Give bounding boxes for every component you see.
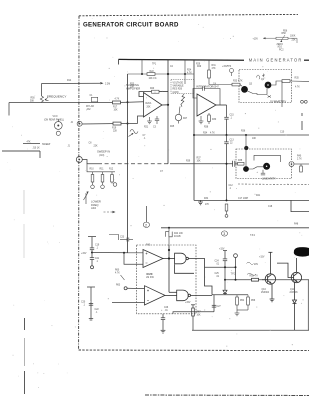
wire right edge bbox=[307, 280, 309, 331]
border bottom dashed bbox=[79, 349, 309, 352]
svg-text:C21: C21 bbox=[95, 258, 100, 260]
wire bbox=[193, 60, 195, 200]
svg-text:20K: 20K bbox=[147, 106, 152, 108]
svg-text:.0047: .0047 bbox=[213, 87, 219, 89]
svg-text:R10: R10 bbox=[90, 169, 95, 171]
svg-text:R36: R36 bbox=[241, 131, 246, 133]
svg-text:VOLTAGE: VOLTAGE bbox=[173, 81, 184, 84]
wire corner left bbox=[8, 103, 10, 116]
under summing amp: ground and cap bbox=[147, 116, 159, 124]
svg-text:C20: C20 bbox=[81, 302, 86, 304]
svg-text:C22: C22 bbox=[95, 309, 100, 311]
trimmer arrow bbox=[84, 193, 89, 201]
svg-text:22K: 22K bbox=[94, 146, 99, 148]
svg-text:+15V: +15V bbox=[81, 253, 87, 255]
input wire R19 from VCO connector bbox=[82, 116, 144, 125]
border top dashed bbox=[79, 14, 298, 15]
diode D4 bbox=[224, 280, 226, 291]
svg-text:(J10): (J10) bbox=[99, 155, 104, 157]
svg-text:C19: C19 bbox=[95, 245, 100, 247]
svg-text:2N3906: 2N3906 bbox=[290, 292, 299, 294]
wire to buffer box bbox=[209, 84, 232, 86]
summing output bus bbox=[167, 60, 169, 164]
svg-text:4.7K: 4.7K bbox=[115, 99, 120, 101]
svg-text:R54: R54 bbox=[240, 300, 245, 302]
svg-text:Q11: Q11 bbox=[290, 289, 295, 291]
ground bbox=[200, 200, 202, 202]
svg-text:(ON REAR PANEL): (ON REAR PANEL) bbox=[44, 119, 64, 122]
wire bbox=[87, 164, 115, 172]
svg-text:RES R26: RES R26 bbox=[173, 89, 183, 91]
svg-text:R34: R34 bbox=[203, 133, 208, 135]
square wave symbol bbox=[166, 228, 173, 245]
decoupling column C19/C21 bbox=[88, 237, 96, 269]
svg-text:R60: R60 bbox=[115, 270, 120, 272]
under integrator bbox=[199, 113, 211, 124]
svg-text:4.7K: 4.7K bbox=[187, 73, 192, 75]
svg-text:ADJ: ADJ bbox=[278, 46, 282, 49]
svg-text:R58: R58 bbox=[282, 33, 287, 35]
nand gate A bbox=[175, 253, 187, 264]
svg-text:27K: 27K bbox=[205, 204, 210, 206]
input wire R17 bbox=[9, 101, 144, 116]
svg-text:R57: R57 bbox=[197, 312, 202, 314]
svg-text:47K: 47K bbox=[212, 68, 217, 70]
nand gate B bbox=[177, 290, 189, 301]
transistor Q3 bbox=[241, 86, 248, 93]
svg-text:(LDR): (LDR) bbox=[173, 92, 179, 94]
svg-text:10K: 10K bbox=[252, 138, 257, 140]
svg-text:10K: 10K bbox=[197, 161, 202, 163]
VT resistor drive column bbox=[184, 60, 186, 84]
ground bbox=[200, 116, 202, 121]
svg-text:R44 10K: R44 10K bbox=[174, 233, 183, 235]
svg-text:4.7K: 4.7K bbox=[115, 273, 120, 275]
svg-text:C13: C13 bbox=[230, 140, 235, 142]
wire bbox=[225, 279, 309, 281]
svg-text:+15V: +15V bbox=[219, 249, 225, 251]
wire bbox=[191, 294, 213, 296]
junction bbox=[167, 104, 169, 106]
svg-text:22K: 22K bbox=[113, 131, 118, 133]
dashed box1 bbox=[239, 70, 292, 103]
junction bbox=[127, 101, 129, 103]
svg-text:R20: R20 bbox=[150, 88, 155, 90]
resistor R38 bbox=[238, 162, 245, 165]
svg-text:VCO: VCO bbox=[53, 116, 58, 118]
wire output bbox=[216, 104, 227, 106]
top bridge wire bbox=[254, 155, 281, 162]
svg-text:VARIABLE: VARIABLE bbox=[173, 85, 185, 88]
svg-text:FREQUENCY: FREQUENCY bbox=[47, 94, 66, 98]
svg-text:C24: C24 bbox=[215, 260, 220, 262]
svg-text:C10: C10 bbox=[280, 132, 285, 134]
op-amp IC2A bbox=[144, 93, 163, 118]
resistor R17 bbox=[113, 101, 121, 104]
twin circles below box1 bbox=[301, 100, 308, 103]
trimmer R11 bbox=[102, 172, 104, 175]
svg-text:C15: C15 bbox=[230, 115, 235, 117]
svg-text:AMPLIFIER: AMPLIFIER bbox=[126, 86, 140, 90]
svg-text:R12: R12 bbox=[109, 169, 114, 171]
diode D6 bbox=[293, 300, 297, 303]
resistor R35 bbox=[282, 80, 290, 83]
svg-text:MAIN GENERATOR: MAIN GENERATOR bbox=[249, 58, 303, 63]
svg-text:R37: R37 bbox=[197, 158, 202, 160]
ground bbox=[149, 117, 151, 121]
svg-text:+15V: +15V bbox=[259, 257, 265, 259]
ground bbox=[161, 329, 166, 331]
component C1 on input wire bbox=[92, 97, 98, 102]
wire y200 bbox=[194, 200, 309, 211]
svg-text:LM 339: LM 339 bbox=[146, 277, 154, 279]
wire bbox=[2, 150, 40, 152]
svg-text:R50: R50 bbox=[31, 98, 36, 100]
capacitor C3 bbox=[156, 116, 158, 119]
inner vertical from sq wave bbox=[168, 245, 170, 292]
svg-text:C27: C27 bbox=[217, 306, 222, 308]
svg-text:10K 1%: 10K 1% bbox=[149, 78, 157, 80]
svg-text:R19: R19 bbox=[112, 128, 117, 130]
ground bbox=[270, 298, 275, 300]
svg-text:R63: R63 bbox=[116, 284, 121, 286]
dashed rail y184 bbox=[238, 183, 309, 186]
svg-text:LINEARITY: LINEARITY bbox=[262, 176, 276, 180]
capacitor C4 feedback bbox=[193, 89, 203, 99]
svg-text:R48: R48 bbox=[294, 224, 299, 226]
potentiometer R58 ZERO ADJ bbox=[276, 37, 288, 39]
svg-text:R22: R22 bbox=[150, 71, 155, 73]
svg-text:R31: R31 bbox=[212, 65, 217, 67]
black blob bbox=[294, 247, 309, 257]
dash arrow bbox=[104, 211, 116, 213]
wire A upper left with arrow bbox=[42, 82, 104, 96]
resistor R55 bbox=[252, 278, 259, 281]
capacitor C6 series bbox=[232, 161, 234, 167]
svg-text:R38: R38 bbox=[238, 160, 243, 162]
resistor R22 bent from rail bbox=[128, 60, 195, 76]
wire dashed bbox=[98, 163, 170, 165]
svg-text:R55: R55 bbox=[250, 276, 255, 278]
transistor Q10 bbox=[265, 274, 275, 284]
svg-text:R21: R21 bbox=[144, 127, 149, 129]
sine waveform mark bbox=[129, 130, 139, 137]
polarized capacitor C9 bbox=[261, 172, 265, 174]
wire y227.8 bbox=[161, 227, 309, 229]
svg-text:R39: R39 bbox=[186, 161, 191, 163]
wire y135 bbox=[194, 134, 309, 136]
svg-text:PC2: PC2 bbox=[279, 49, 284, 51]
svg-text:ADJ: ADJ bbox=[91, 206, 97, 210]
svg-text:INTEGRATOR: INTEGRATOR bbox=[196, 85, 213, 89]
svg-text:+15V: +15V bbox=[253, 38, 259, 40]
resistor R30 bbox=[208, 113, 210, 115]
wire bbox=[124, 253, 143, 265]
C15 column bbox=[224, 105, 228, 135]
output transistors bbox=[252, 252, 302, 330]
resistor R31 column bbox=[208, 60, 232, 85]
circled 3 bbox=[222, 231, 228, 236]
svg-text:C17 100P: C17 100P bbox=[238, 198, 249, 200]
trimmer network left bbox=[84, 164, 117, 204]
diode D2 bbox=[268, 96, 272, 98]
wire bbox=[82, 123, 113, 125]
wire bbox=[167, 60, 169, 164]
cross couple bbox=[175, 264, 195, 273]
svg-text:R28: R28 bbox=[204, 127, 209, 129]
VCO connector outside border bbox=[54, 119, 62, 135]
bottom middle bbox=[161, 280, 309, 333]
svg-text:+15V: +15V bbox=[222, 66, 228, 68]
svg-text:R35: R35 bbox=[295, 78, 300, 80]
svg-text:2.2M: 2.2M bbox=[105, 83, 110, 85]
svg-text:R34: R34 bbox=[204, 198, 209, 200]
op-amp IC2B bbox=[197, 94, 216, 116]
wire bbox=[165, 294, 177, 296]
potentiometer FREQUENCY R50 bbox=[40, 96, 48, 103]
zero adj trimmer circuit bbox=[263, 35, 297, 43]
capacitor C26 bbox=[162, 314, 164, 318]
svg-text:R17: R17 bbox=[113, 107, 118, 109]
dashed box2 bbox=[236, 149, 292, 179]
test point circle near box1 bbox=[230, 69, 234, 77]
page crease marks bbox=[23, 190, 26, 394]
svg-text:R29: R29 bbox=[197, 66, 202, 68]
svg-text:100K: 100K bbox=[290, 36, 296, 38]
wire bbox=[271, 81, 282, 85]
svg-text:A32: A32 bbox=[87, 108, 92, 111]
svg-text:TP1: TP1 bbox=[152, 64, 157, 66]
wire bbox=[188, 259, 212, 295]
transistor Q4 bbox=[265, 82, 272, 89]
svg-text:SYMMETRY: SYMMETRY bbox=[270, 100, 286, 104]
trimmer R10 bbox=[92, 172, 94, 175]
left input bus bbox=[119, 59, 128, 252]
wire from y135 down bbox=[245, 135, 247, 166]
svg-text:7V: 7V bbox=[255, 276, 258, 278]
trimmer under wire y200 bbox=[225, 204, 228, 217]
photoresistor R26 bbox=[175, 94, 184, 124]
svg-text:J10 1K: J10 1K bbox=[33, 147, 41, 149]
svg-text:2N3904: 2N3904 bbox=[261, 292, 270, 294]
wire bbox=[288, 38, 297, 43]
ground bbox=[235, 312, 240, 314]
decoupling column C20/C22 bbox=[87, 287, 95, 320]
wire bbox=[23, 143, 40, 145]
junction bbox=[167, 73, 169, 75]
wire bus bbox=[119, 59, 128, 252]
main generator rail bbox=[119, 58, 310, 61]
wire bbox=[9, 102, 113, 104]
svg-text:C26: C26 bbox=[164, 307, 169, 309]
svg-text:C12: C12 bbox=[229, 185, 234, 187]
svg-text:T.P.4: T.P.4 bbox=[250, 235, 256, 237]
handwritten mark bbox=[257, 74, 266, 80]
wire bottom bbox=[192, 329, 309, 331]
wire rail bbox=[119, 58, 245, 61]
svg-text:R20A: R20A bbox=[146, 102, 152, 105]
C24 column bbox=[205, 251, 310, 295]
wire bbox=[173, 312, 214, 314]
svg-text:R30: R30 bbox=[212, 119, 217, 121]
svg-text:T.P.2: T.P.2 bbox=[231, 274, 237, 276]
svg-text:C25: C25 bbox=[215, 273, 220, 275]
capacitor C27 bbox=[212, 304, 216, 306]
wire rail right bbox=[304, 59, 309, 61]
voltage variable resistor dashed box bbox=[171, 80, 194, 94]
svg-text:IC20: IC20 bbox=[147, 272, 153, 276]
wire output bbox=[162, 104, 168, 106]
circled 2 bbox=[143, 222, 149, 227]
AM signal path bbox=[76, 157, 237, 167]
wire bbox=[92, 252, 143, 254]
resistor R33 bbox=[232, 83, 242, 86]
comparator B bbox=[145, 286, 166, 305]
junction blob on box2 top bbox=[244, 146, 248, 150]
svg-text:4011B: 4011B bbox=[174, 236, 181, 238]
transistor Q11 bbox=[291, 272, 301, 282]
comparator A bbox=[143, 245, 212, 305]
svg-text:R14: R14 bbox=[67, 80, 72, 82]
wire bbox=[163, 258, 175, 260]
wire step right bbox=[291, 200, 309, 211]
svg-text:R56: R56 bbox=[251, 300, 256, 302]
svg-text:10K: 10K bbox=[197, 315, 202, 317]
svg-text:2: 2 bbox=[145, 224, 147, 228]
svg-text:TP3: TP3 bbox=[227, 66, 232, 68]
wire bbox=[205, 266, 236, 268]
wire bbox=[82, 160, 98, 164]
svg-text:C23: C23 bbox=[120, 237, 125, 239]
svg-text:10K: 10K bbox=[114, 110, 119, 112]
svg-text:R33 4.7K: R33 4.7K bbox=[233, 80, 243, 82]
svg-text:R25: R25 bbox=[170, 126, 175, 128]
emitter down bbox=[294, 282, 296, 301]
svg-text:R40: R40 bbox=[297, 156, 302, 158]
svg-text:Q10: Q10 bbox=[262, 289, 267, 291]
svg-text:50K: 50K bbox=[30, 101, 35, 103]
wire bbox=[212, 294, 248, 296]
resistor R12 bbox=[111, 172, 113, 175]
+15V feed bbox=[268, 251, 272, 253]
svg-text:4.7K: 4.7K bbox=[210, 133, 215, 135]
svg-text:GENERATOR CIRCUIT BOARD: GENERATOR CIRCUIT BOARD bbox=[83, 21, 179, 28]
svg-text:20V: 20V bbox=[254, 264, 259, 266]
C13 column bbox=[224, 135, 228, 200]
feedback resistor R20 bbox=[139, 92, 152, 97]
transistor Q5 bbox=[243, 166, 249, 172]
svg-text:SUMMING: SUMMING bbox=[126, 83, 139, 87]
comparator input wires bbox=[92, 253, 145, 303]
wire inner vertical bbox=[281, 81, 283, 107]
small L wire bbox=[109, 235, 119, 241]
wires in box1 bbox=[248, 80, 310, 107]
handwritten annotations bbox=[247, 262, 257, 275]
svg-text:SWEEP IN: SWEEP IN bbox=[97, 150, 110, 154]
R56 R58 resistors bbox=[235, 295, 250, 316]
wire bbox=[124, 287, 127, 290]
wire bbox=[170, 163, 233, 165]
svg-text:+15V: +15V bbox=[185, 302, 191, 304]
wires bbox=[249, 167, 263, 169]
wire bbox=[112, 301, 145, 303]
svg-text:R43: R43 bbox=[146, 245, 151, 247]
svg-text:SWEEP: SWEEP bbox=[42, 144, 51, 146]
test point bbox=[234, 254, 238, 258]
transistor Q6 bbox=[263, 163, 270, 170]
svg-text:3: 3 bbox=[223, 232, 225, 236]
svg-text:R29: R29 bbox=[196, 64, 201, 66]
border left dashed bbox=[78, 16, 80, 350]
junction bbox=[127, 123, 129, 125]
svg-text:47K: 47K bbox=[27, 141, 32, 143]
page bottom rule dashed bbox=[145, 394, 309, 397]
wire bbox=[263, 37, 276, 39]
connector out box2 bbox=[289, 162, 309, 173]
isolated stub right edge bbox=[301, 113, 303, 116]
svg-text:C18: C18 bbox=[268, 206, 273, 208]
svg-text:R27: R27 bbox=[183, 118, 188, 120]
svg-text:22K: 22K bbox=[292, 40, 297, 42]
svg-text:R24: R24 bbox=[187, 70, 192, 72]
svg-text:2.7K: 2.7K bbox=[297, 159, 302, 161]
SWEEP IN wires far left bbox=[2, 144, 40, 159]
resistor R57 bbox=[191, 304, 195, 306]
junction bbox=[184, 73, 186, 75]
svg-text:MYLAR: MYLAR bbox=[86, 105, 94, 108]
wire stub to circled 2 bbox=[145, 206, 147, 222]
resistor R19 bbox=[113, 122, 121, 125]
connector J1 on border bbox=[76, 157, 82, 163]
svg-text:R41: R41 bbox=[256, 195, 261, 197]
comparator dashed box bbox=[137, 245, 197, 314]
svg-text:R56: R56 bbox=[283, 30, 288, 32]
svg-text:4.7K: 4.7K bbox=[295, 87, 300, 89]
connector J2 on border bbox=[77, 121, 82, 126]
integrator bus bbox=[193, 60, 195, 200]
